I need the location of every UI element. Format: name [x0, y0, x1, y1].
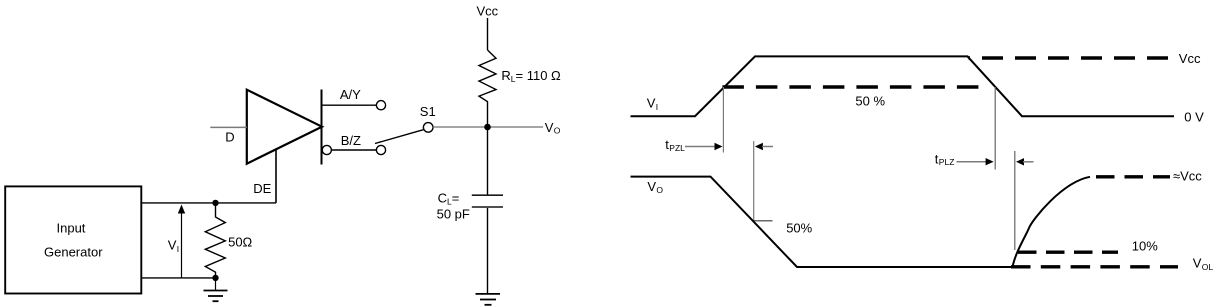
measure line VO fall 50% crossing [753, 141, 755, 221]
dashed approx Vcc level [1096, 175, 1170, 178]
resistor R1 50ohm [205, 203, 225, 278]
measure line VO rise 10% crossing [1014, 151, 1016, 250]
svg-text:V: V [1193, 256, 1202, 271]
arrow VI measure [181, 208, 183, 278]
svg-text:50Ω: 50Ω [228, 234, 252, 249]
dashed Vcc level [969, 56, 1169, 59]
ground capacitor [476, 294, 501, 305]
svg-text:CL=: CL= [438, 190, 460, 206]
wire B/Z [331, 149, 376, 151]
terminal A/Y circle [376, 101, 385, 110]
wire S1 to VO [433, 126, 543, 128]
svg-text:A/Y: A/Y [340, 87, 361, 102]
svg-text:Generator: Generator [44, 245, 103, 260]
trace VO [631, 177, 1013, 267]
switch S1 pole circle [423, 123, 433, 133]
wire generator top output [142, 202, 277, 204]
wire generator bottom [142, 277, 216, 279]
svg-text:50%: 50% [786, 221, 812, 236]
wire Vcc to RL [487, 18, 489, 50]
trace VI [631, 56, 1175, 116]
terminal B/Z circle [376, 145, 385, 154]
svg-text:RL= 110 Ω: RL= 110 Ω [501, 68, 561, 84]
measure line VI rise 50% crossing [722, 87, 724, 153]
svg-text:V: V [168, 238, 177, 253]
svg-text:Vcc: Vcc [477, 4, 499, 19]
measure line VI fall 50% crossing [994, 87, 996, 170]
switch S1 blade [375, 130, 424, 144]
buffer U1 triangle [247, 90, 322, 164]
svg-text:I: I [177, 244, 179, 254]
svg-text:V: V [545, 120, 554, 135]
svg-text:≈Vcc: ≈Vcc [1173, 169, 1202, 184]
arrow left into 10% crossing [1016, 158, 1024, 165]
svg-text:10%: 10% [1132, 239, 1158, 254]
svg-text:O: O [554, 126, 561, 136]
resistor RL [479, 50, 496, 127]
wire A/Y [322, 104, 377, 106]
curve VO exponential rise [1013, 177, 1091, 267]
ground generator [204, 278, 228, 301]
capacitor CL top plate [472, 194, 503, 196]
wire DE enable [275, 148, 277, 203]
dashed 10% level [1018, 250, 1118, 253]
output bar [321, 90, 323, 165]
svg-text:OL: OL [1202, 262, 1214, 272]
svg-text:D: D [225, 129, 234, 144]
arrow tPLZ [957, 161, 988, 163]
dashed 50% level VI [722, 85, 986, 88]
dashed VOL level [1011, 265, 1178, 268]
junction node output [484, 124, 491, 131]
svg-text:Input: Input [57, 221, 86, 236]
input generator box [5, 186, 141, 293]
svg-text:PLZ: PLZ [939, 157, 955, 167]
terminal B/Z bar-side circle [322, 145, 331, 154]
svg-text:B/Z: B/Z [341, 133, 361, 148]
svg-text:S1: S1 [420, 104, 436, 119]
svg-text:50 %: 50 % [855, 94, 885, 109]
arrow left into VO crossing [755, 143, 763, 150]
svg-text:PZL: PZL [669, 143, 685, 153]
tick 50% on VO fall [754, 220, 773, 222]
svg-text:DE: DE [253, 181, 271, 196]
junction node bottom [212, 275, 218, 281]
svg-text:I: I [656, 102, 658, 112]
wire D input [210, 126, 247, 128]
arrow tPZL [685, 146, 716, 148]
svg-text:V: V [647, 179, 656, 194]
svg-text:50 pF: 50 pF [437, 207, 470, 222]
capacitor CL bottom plate [472, 206, 503, 208]
junction node top [212, 200, 218, 206]
wire node to capacitor [487, 127, 489, 195]
svg-text:V: V [647, 95, 656, 110]
svg-text:Vcc: Vcc [1179, 51, 1201, 66]
svg-text:O: O [656, 185, 663, 195]
svg-text:0 V: 0 V [1184, 109, 1204, 124]
wire capacitor to ground [487, 208, 489, 294]
